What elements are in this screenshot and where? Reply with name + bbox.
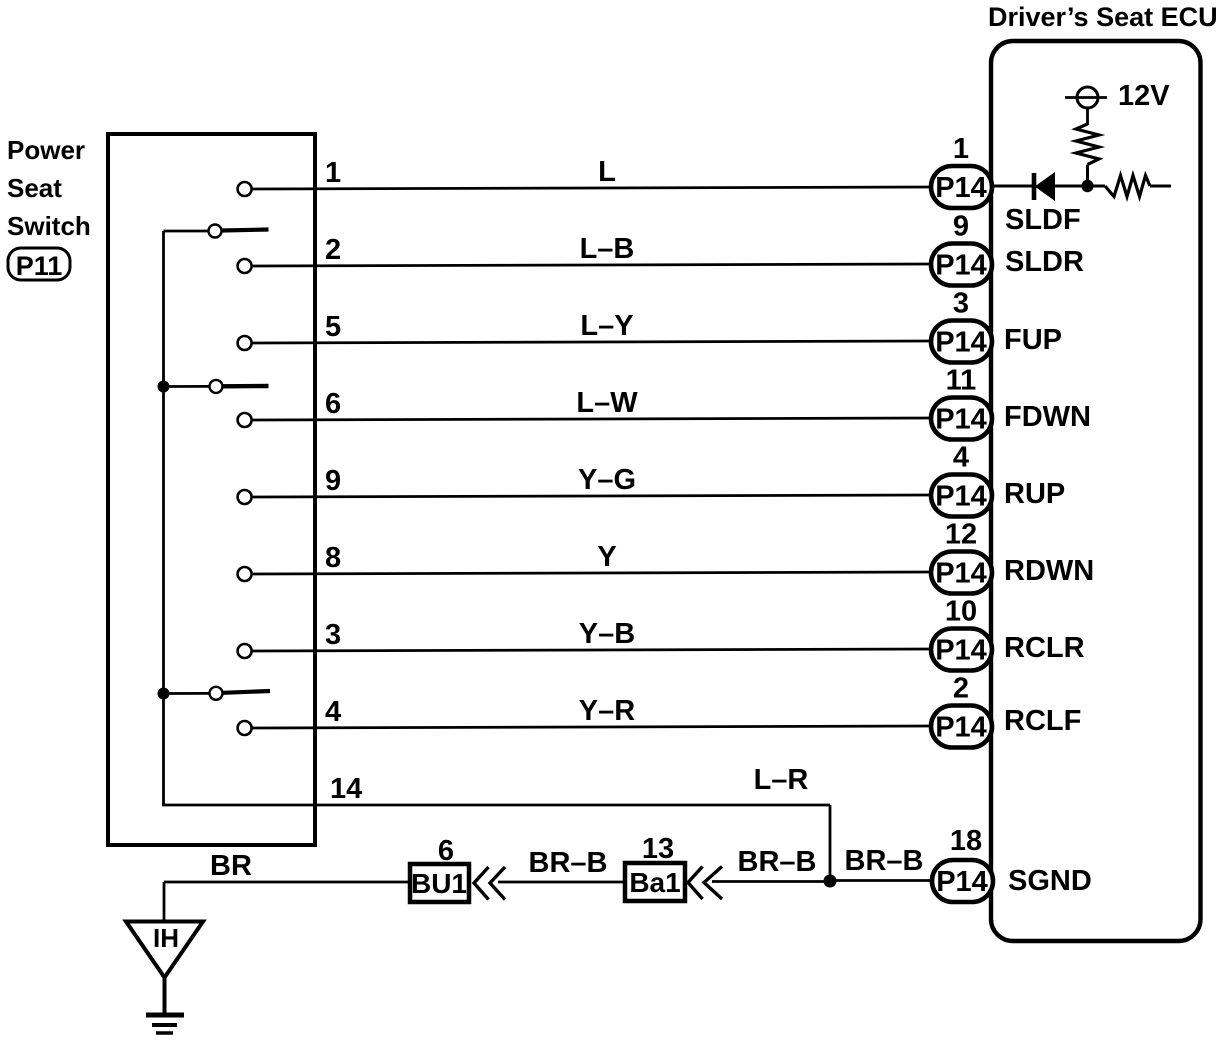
connector P14 pin 10 xyxy=(931,629,992,671)
inline connector chevrons at BU1 xyxy=(474,867,505,900)
connector Ba1 xyxy=(625,863,685,901)
svg-text:18: 18 xyxy=(950,825,982,857)
ground stem xyxy=(163,978,167,1015)
svg-text:P14: P14 xyxy=(935,250,987,282)
svg-text:SGND: SGND xyxy=(1008,865,1092,897)
svg-text:13: 13 xyxy=(642,833,674,865)
svg-text:P14: P14 xyxy=(935,327,987,359)
contact terminal circle pin 9 xyxy=(238,490,252,504)
ground symbol IH triangle xyxy=(126,922,203,978)
wire 14 drop to SGND line xyxy=(829,805,832,882)
junction node SLDF internal xyxy=(1081,180,1093,192)
svg-text:6: 6 xyxy=(325,388,341,420)
svg-text:P14: P14 xyxy=(935,172,987,204)
svg-text:Driver’s Seat ECU: Driver’s Seat ECU xyxy=(988,2,1218,32)
svg-text:Switch: Switch xyxy=(7,211,91,241)
svg-text:P14: P14 xyxy=(935,481,987,513)
svg-text:Y–G: Y–G xyxy=(578,464,636,496)
wire Y-B pin3 to RCLR xyxy=(252,649,931,651)
svg-text:12: 12 xyxy=(945,519,977,551)
wire Y-R pin4 to RCLF xyxy=(252,726,931,728)
svg-text:4: 4 xyxy=(953,442,969,474)
wire P14-1 into ECU xyxy=(990,185,1033,188)
junction node SGND wire xyxy=(824,875,837,888)
svg-text:L: L xyxy=(598,156,616,188)
svg-text:FUP: FUP xyxy=(1004,324,1062,356)
svg-text:RUP: RUP xyxy=(1004,478,1065,510)
svg-text:Power: Power xyxy=(7,135,85,165)
wire resistor to right xyxy=(1150,185,1171,188)
svg-text:P11: P11 xyxy=(16,251,63,281)
wire BR-B BU1 to Ba1 xyxy=(498,881,625,884)
svg-text:1: 1 xyxy=(325,157,341,189)
svg-text:Y–R: Y–R xyxy=(579,695,635,727)
svg-text:L–B: L–B xyxy=(580,233,635,265)
wire Y-G pin9 to RUP xyxy=(252,495,931,497)
svg-text:Seat: Seat xyxy=(7,173,62,203)
resistor vertical pullup xyxy=(1076,124,1099,165)
svg-text:BR–B: BR–B xyxy=(529,847,608,879)
connector P14 pin 12 xyxy=(931,552,992,594)
svg-text:1: 1 xyxy=(953,133,969,165)
svg-text:P14: P14 xyxy=(935,712,987,744)
connector P14 pin 11 xyxy=(931,398,992,440)
svg-text:9: 9 xyxy=(325,465,341,497)
ground hatch lines xyxy=(146,1015,184,1033)
svg-text:2: 2 xyxy=(953,673,969,705)
connector P14 pin 3 xyxy=(931,321,992,363)
svg-text:BR–B: BR–B xyxy=(845,845,924,877)
connector label P11 xyxy=(8,248,70,281)
svg-text:BR: BR xyxy=(210,850,252,882)
svg-text:P14: P14 xyxy=(935,635,987,667)
12V supply symbol xyxy=(1065,80,1170,112)
switch contact arm 1 xyxy=(164,225,269,238)
svg-text:2: 2 xyxy=(325,234,341,266)
wire L-W pin6 to FDWN xyxy=(252,418,931,420)
svg-text:BR–B: BR–B xyxy=(738,846,817,878)
wire BR-B Ba1 to junction xyxy=(712,880,830,883)
svg-text:Y: Y xyxy=(597,541,616,573)
svg-text:3: 3 xyxy=(325,619,341,651)
svg-text:P14: P14 xyxy=(935,558,987,590)
wire 12V to resistor xyxy=(1086,109,1089,126)
ground wire drop xyxy=(163,882,166,921)
wire L-B pin2 to SLDR xyxy=(252,264,931,266)
junction dot on bus at arm 3 xyxy=(158,688,170,700)
connector P14 pin 9 xyxy=(931,244,992,286)
contact terminal circle pin 1 xyxy=(238,182,252,196)
contact terminal circle pin 8 xyxy=(238,567,252,581)
diode D1 xyxy=(1034,173,1054,200)
wire BR ground run xyxy=(164,881,410,884)
wire L-Y pin5 to FUP xyxy=(252,341,931,343)
svg-text:9: 9 xyxy=(953,211,969,243)
connector P14 pin 4 xyxy=(931,475,992,517)
svg-text:L–W: L–W xyxy=(576,387,638,419)
contact terminal circle pin 2 xyxy=(238,259,252,273)
wire diode to node xyxy=(1054,185,1105,188)
inline connector chevrons at Ba1 xyxy=(688,867,722,900)
switch box P11 outline xyxy=(108,134,315,845)
svg-text:BU1: BU1 xyxy=(411,868,467,899)
switch contact arm 2 xyxy=(164,380,269,393)
wire resistor to node xyxy=(1086,165,1089,187)
connector P14 pin 1 xyxy=(931,166,992,208)
svg-text:P14: P14 xyxy=(936,866,988,898)
svg-text:SLDF: SLDF xyxy=(1005,204,1081,236)
contact terminal circle pin 3 xyxy=(238,644,252,658)
svg-text:6: 6 xyxy=(438,835,454,867)
connector P14 pin 18 xyxy=(932,860,993,902)
contact terminal circle pin 6 xyxy=(238,413,252,427)
svg-text:L–Y: L–Y xyxy=(580,310,633,342)
svg-text:IH: IH xyxy=(153,923,179,953)
switch contact arm 3 xyxy=(164,687,271,700)
svg-text:Y–B: Y–B xyxy=(579,618,635,650)
svg-text:RDWN: RDWN xyxy=(1004,555,1094,587)
svg-text:Ba1: Ba1 xyxy=(629,867,680,898)
wire BR-B junction to P14-18 xyxy=(830,879,932,882)
svg-text:8: 8 xyxy=(325,542,341,574)
connector P14 pin 2 xyxy=(931,706,992,748)
wire Y pin8 to RDWN xyxy=(252,572,931,574)
label Power Seat Switch xyxy=(7,135,91,241)
contact terminal circle pin 5 xyxy=(238,336,252,350)
svg-text:4: 4 xyxy=(325,696,341,728)
svg-text:5: 5 xyxy=(325,311,341,343)
ECU box outline xyxy=(991,41,1201,941)
svg-text:FDWN: FDWN xyxy=(1004,401,1091,433)
wire L pin1 to SLDF xyxy=(252,187,931,189)
svg-text:P14: P14 xyxy=(935,404,987,436)
svg-text:SLDR: SLDR xyxy=(1005,246,1084,278)
svg-text:11: 11 xyxy=(946,365,977,397)
svg-text:12V: 12V xyxy=(1118,80,1170,112)
wire internal bus vertical xyxy=(164,231,831,805)
junction dot on bus at arm 2 xyxy=(158,381,170,393)
svg-text:10: 10 xyxy=(945,596,977,628)
svg-text:RCLR: RCLR xyxy=(1004,632,1085,664)
svg-text:3: 3 xyxy=(953,288,969,320)
connector BU1 xyxy=(410,864,469,902)
svg-text:L–R: L–R xyxy=(754,764,809,796)
svg-text:RCLF: RCLF xyxy=(1004,705,1081,737)
svg-text:14: 14 xyxy=(330,773,362,805)
contact terminal circle pin 4 xyxy=(238,721,252,735)
resistor horizontal xyxy=(1105,176,1150,197)
